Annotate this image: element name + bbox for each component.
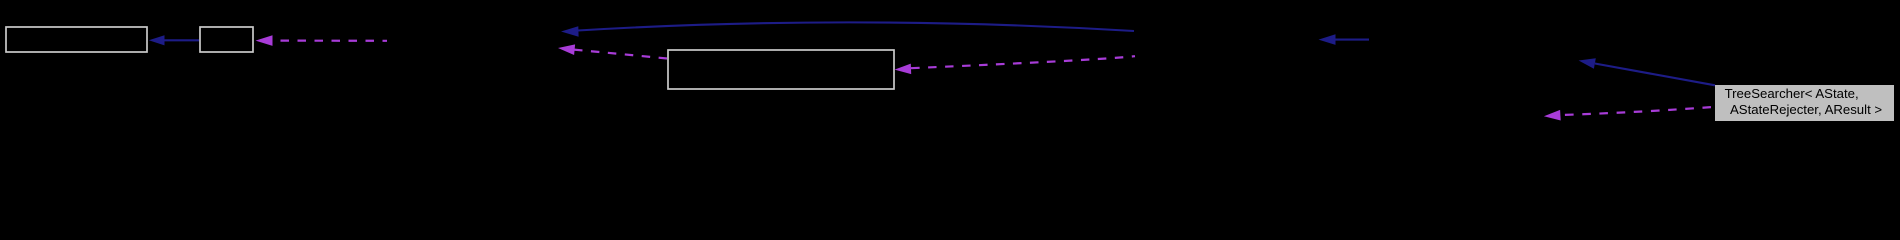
edge: dashed usage arrow TreeSearcher -> (hidden node, lower left)	[1544, 107, 1715, 121]
edge: solid inheritance arrow TreeSearcher -> (hidden node)	[1579, 58, 1715, 85]
svg-text:AStateRejecter, AResult >: AStateRejecter, AResult >	[1730, 102, 1882, 117]
svg-text:TreeSearcher< AState,: TreeSearcher< AState,	[1725, 86, 1859, 101]
node box3 (unlabeled class node, middle)	[668, 50, 894, 89]
edge: dashed usage arrow box3 -> (hidden left node)	[558, 44, 667, 58]
node box1 (unlabeled class node, far left)	[6, 27, 147, 52]
edge: dashed usage arrow (hidden right node) -> box3	[895, 56, 1136, 74]
node box2 (unlabeled class node)	[200, 27, 253, 52]
edge: dashed usage arrow (hidden node) -> box2	[256, 35, 388, 46]
edge: solid inheritance arrow box2 -> box1	[149, 35, 199, 45]
edge: long solid inheritance curve (hidden right node) -> (hidden left node)	[561, 22, 1134, 36]
node TreeSearcher< AState, AStateRejecter, AResult > (main node, grey)	[1715, 85, 1894, 121]
edge: short solid inheritance arrow (hidden node) -> (hidden node)	[1319, 34, 1370, 45]
